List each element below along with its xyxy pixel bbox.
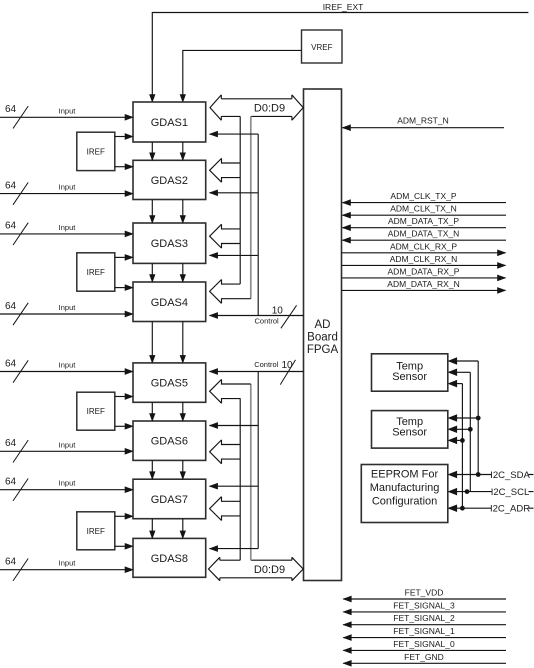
svg-text:Input: Input	[59, 183, 77, 192]
wire chain GDAS7 to GDAS8 (right)	[182, 519, 184, 532]
wire FET_SIGNAL_2	[343, 624, 506, 626]
wire I2C_SDA tap into temp sensor 1	[455, 360, 478, 362]
block temp sensor 1	[372, 354, 448, 391]
wire IREF2 to GDAS4	[115, 287, 126, 289]
svg-text:VREF: VREF	[311, 43, 332, 52]
wire I2C_SCL vertical	[469, 372, 471, 491]
block GDAS4	[133, 282, 206, 322]
wire IREF_EXT net (top feed into GDAS1)	[152, 13, 528, 96]
svg-text:64: 64	[5, 438, 17, 449]
svg-text:64: 64	[5, 180, 17, 191]
svg-text:Input: Input	[59, 223, 77, 232]
block GDAS1	[133, 102, 206, 142]
wire IREF3 to GDAS5	[115, 396, 126, 398]
wire Input bus into GDAS1 (64 lines)	[0, 116, 126, 118]
wire ADM_RST_N	[343, 127, 505, 129]
wire I2C_ADR tap into temp sensor 2	[455, 439, 463, 441]
wire control vertical (bottom group)	[257, 372, 259, 549]
svg-text:I2C_ADR: I2C_ADR	[490, 504, 530, 515]
bus data block arrow into GDAS6	[210, 440, 222, 464]
svg-text:IREF: IREF	[87, 147, 105, 156]
block IREF1	[77, 132, 115, 170]
junction I2C_SDA at temp sensor 2	[476, 416, 481, 421]
wire FET_SIGNAL_1	[343, 637, 506, 639]
wire control tap into GDAS6	[210, 425, 259, 427]
bus data block arrow into GDAS3	[210, 224, 222, 248]
wire ADM_CLK_TX_P	[343, 202, 507, 204]
svg-text:64: 64	[5, 358, 17, 369]
svg-text:ADM_CLK_TX_N: ADM_CLK_TX_N	[390, 204, 457, 214]
wire FET_GND	[343, 662, 506, 664]
wire chain GDAS2 to GDAS3 (right)	[182, 200, 184, 217]
block U-FPGA AD Board FPGA	[304, 89, 342, 581]
bus channel right side (top group)	[250, 116, 252, 298]
svg-text:GDAS2: GDAS2	[151, 175, 188, 187]
svg-text:EEPROM For: EEPROM For	[371, 468, 439, 480]
svg-text:64: 64	[5, 104, 17, 115]
wire ADM_DATA_RX_P	[342, 277, 506, 279]
wire ADM_DATA_TX_N	[343, 239, 507, 241]
svg-text:Control: Control	[255, 317, 280, 326]
wire chain GDAS6 to GDAS7 (left)	[151, 460, 153, 472]
svg-text:Input: Input	[59, 303, 77, 312]
block IREF2	[77, 253, 115, 291]
wire FET_VDD	[343, 598, 506, 600]
wire chain GDAS4 to GDAS5 (left)	[151, 322, 153, 356]
svg-text:I2C_SDA: I2C_SDA	[490, 470, 530, 481]
wire chain GDAS3 to GDAS4 (right)	[182, 263, 184, 275]
wire FET_SIGNAL_0	[343, 649, 506, 651]
svg-text:GDAS1: GDAS1	[151, 117, 188, 129]
wire chain GDAS1 to GDAS2 (left)	[151, 142, 153, 153]
wire chain GDAS3 to GDAS4 (left)	[151, 263, 153, 275]
bus D0:D9 double block arrow (GDAS8 - FPGA)	[209, 557, 220, 580]
wire chain GDAS6 to GDAS7 (right)	[182, 460, 184, 472]
junction I2C_SCL at EEPROM tap	[465, 489, 470, 494]
svg-text:FET_SIGNAL_2: FET_SIGNAL_2	[393, 613, 455, 623]
bus channel left side (bottom group)	[239, 398, 241, 560]
svg-text:I2C_SCL: I2C_SCL	[491, 487, 530, 498]
bus data block arrow into GDAS4	[210, 280, 222, 304]
bus channel right side (bottom group)	[250, 384, 252, 560]
wire I2C_SCL tap into temp sensor 2	[455, 428, 471, 430]
svg-text:IREF_EXT: IREF_EXT	[323, 2, 364, 12]
wire I2C_ADR tap into temp sensor 1	[455, 383, 463, 385]
svg-text:IREF: IREF	[87, 268, 105, 277]
svg-text:FET_SIGNAL_0: FET_SIGNAL_0	[393, 639, 455, 649]
wire IREF1 to GDAS2	[115, 166, 126, 168]
block IREF4	[77, 512, 115, 550]
wire IREF4 to GDAS7	[115, 515, 126, 517]
svg-text:D0:D9: D0:D9	[254, 564, 285, 576]
wire control tap into GDAS3	[210, 254, 259, 256]
svg-text:IREF: IREF	[87, 407, 105, 416]
svg-text:GDAS3: GDAS3	[151, 238, 188, 250]
svg-text:ADM_CLK_TX_P: ADM_CLK_TX_P	[390, 191, 456, 201]
wire control tap into GDAS1	[210, 133, 259, 135]
svg-text:FPGA: FPGA	[307, 344, 339, 356]
bus D0:D9 double block arrow (GDAS1 - FPGA)	[210, 95, 221, 120]
svg-text:GDAS8: GDAS8	[151, 553, 188, 565]
wire Input bus into GDAS3 (64 lines)	[0, 233, 126, 235]
svg-text:64: 64	[5, 477, 17, 488]
svg-text:ADM_DATA_RX_N: ADM_DATA_RX_N	[387, 279, 459, 289]
svg-text:ADM_CLK_RX_P: ADM_CLK_RX_P	[390, 241, 457, 251]
svg-text:D0:D9: D0:D9	[254, 103, 285, 115]
svg-text:Input: Input	[59, 479, 77, 488]
block temp sensor 2	[372, 411, 448, 449]
svg-text:GDAS6: GDAS6	[151, 436, 188, 448]
label I2C_ADR	[492, 503, 529, 514]
bus channel left side (top group)	[239, 116, 241, 284]
wire I2C_ADR vertical	[461, 384, 463, 509]
svg-text:Manufacturing: Manufacturing	[370, 482, 440, 494]
wire I2C_SDA tap into temp sensor 2	[455, 417, 478, 419]
svg-text:64: 64	[5, 221, 17, 232]
wire Input bus into GDAS4 (64 lines)	[0, 313, 126, 315]
wire IREF1 to GDAS1	[115, 136, 126, 138]
svg-text:Input: Input	[59, 361, 77, 370]
svg-text:Control: Control	[254, 360, 279, 369]
svg-text:FET_SIGNAL_3: FET_SIGNAL_3	[393, 600, 455, 610]
svg-text:FET_SIGNAL_1: FET_SIGNAL_1	[393, 626, 455, 636]
wire Input bus into GDAS6 (64 lines)	[0, 450, 126, 452]
svg-text:Input: Input	[59, 440, 77, 449]
svg-text:Input: Input	[59, 559, 77, 568]
wire Input bus into GDAS7 (64 lines)	[0, 489, 126, 491]
wire control tap into GDAS2	[210, 192, 259, 194]
svg-text:Input: Input	[59, 106, 77, 115]
wire Input bus into GDAS5 (64 lines)	[0, 371, 126, 373]
wire control vertical (top group)	[257, 134, 259, 315]
svg-text:64: 64	[5, 557, 17, 568]
block GDAS2	[133, 160, 206, 199]
wire ADM_CLK_RX_P	[342, 252, 506, 254]
svg-text:AD: AD	[315, 319, 331, 331]
wire chain GDAS4 to GDAS5 (right)	[182, 322, 184, 356]
block GDAS6	[133, 421, 206, 460]
wire ADM_CLK_TX_N	[343, 214, 507, 216]
svg-text:Sensor: Sensor	[392, 371, 427, 383]
block IREF3	[77, 392, 115, 430]
wire control tap into GDAS8	[210, 548, 259, 550]
svg-text:FET_VDD: FET_VDD	[405, 588, 444, 598]
wire I2C_ADR into EEPROM and external	[455, 507, 534, 509]
wire chain GDAS5 to GDAS6 (left)	[151, 402, 153, 414]
wire control tap into GDAS7	[210, 485, 259, 487]
svg-text:64: 64	[5, 301, 17, 312]
wire IREF4 to GDAS8	[115, 545, 126, 547]
wire Input bus into GDAS8 (64 lines)	[0, 569, 126, 571]
wire Input bus into GDAS2 (64 lines)	[0, 193, 126, 195]
wire ADM_DATA_TX_P	[343, 227, 507, 229]
svg-text:ADM_DATA_TX_P: ADM_DATA_TX_P	[388, 216, 459, 226]
wire IREF3 to GDAS6	[115, 425, 126, 427]
block VREF	[302, 30, 343, 63]
svg-text:ADM_DATA_RX_P: ADM_DATA_RX_P	[388, 266, 460, 276]
block GDAS3	[133, 223, 206, 263]
svg-text:10: 10	[281, 360, 293, 371]
svg-text:10: 10	[272, 305, 284, 316]
svg-text:GDAS7: GDAS7	[151, 494, 188, 506]
block GDAS7	[133, 479, 206, 519]
junction I2C_ADR at EEPROM tap	[460, 506, 465, 511]
wire VREF output to GDAS1	[183, 50, 302, 95]
wire IREF2 to GDAS3	[115, 256, 126, 258]
wire chain GDAS5 to GDAS6 (right)	[182, 402, 184, 414]
svg-text:GDAS4: GDAS4	[151, 297, 188, 309]
svg-text:IREF: IREF	[87, 527, 105, 536]
wire I2C_SDA into EEPROM and external	[455, 474, 534, 476]
wire I2C_SCL tap into temp sensor 1	[455, 371, 471, 373]
wire I2C_SCL into EEPROM and external	[455, 491, 534, 493]
wire FET_SIGNAL_3	[343, 611, 506, 613]
svg-text:GDAS5: GDAS5	[151, 378, 188, 390]
wire chain GDAS2 to GDAS3 (left)	[151, 200, 153, 217]
svg-text:ADM_CLK_RX_N: ADM_CLK_RX_N	[390, 254, 458, 264]
wire Control bus FPGA to GDAS5 (10 lines)	[210, 371, 304, 373]
block GDAS8	[133, 538, 206, 577]
junction I2C_SDA at EEPROM tap	[476, 472, 481, 477]
svg-text:Configuration: Configuration	[372, 496, 437, 508]
wire ADM_DATA_RX_N	[342, 289, 506, 291]
junction I2C_ADR at temp sensor 2	[460, 438, 465, 443]
label I2C_SCL	[492, 486, 529, 497]
bus data block arrow into GDAS2	[210, 158, 222, 182]
svg-text:ADM_RST_N: ADM_RST_N	[397, 116, 448, 126]
svg-text:Board: Board	[307, 332, 338, 344]
svg-text:FET_GND: FET_GND	[404, 652, 444, 662]
label I2C_SDA	[492, 469, 529, 480]
wire I2C_SDA vertical	[477, 361, 479, 475]
wire ADM_CLK_RX_N	[342, 264, 506, 266]
wire chain GDAS7 to GDAS8 (left)	[151, 519, 153, 532]
bus data block arrow into GDAS5	[210, 379, 222, 403]
svg-text:ADM_DATA_TX_N: ADM_DATA_TX_N	[388, 229, 459, 239]
block GDAS5	[133, 363, 206, 402]
block EEPROM for manufacturing configuration	[361, 465, 448, 523]
junction I2C_SCL at temp sensor 2	[468, 427, 473, 432]
wire chain GDAS1 to GDAS2 (right)	[182, 142, 184, 153]
svg-text:Sensor: Sensor	[392, 427, 427, 439]
wire Control bus FPGA to GDAS4 (10 lines)	[210, 315, 304, 317]
bus data block arrow into GDAS7	[210, 497, 222, 521]
